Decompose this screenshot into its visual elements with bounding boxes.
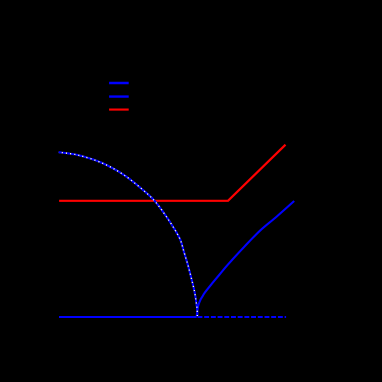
legend entry 2: blue solid-curve sample: [109, 95, 129, 97]
legend entry 3: red-curve sample: [109, 109, 129, 111]
legend entry 1: blue dashed-curve sample: [109, 82, 129, 84]
blue solid curve: rising branch: [197, 201, 295, 316]
blue solid curve: flat bottom segment: [59, 316, 197, 318]
blue dotted horizontal continuation: [198, 316, 287, 318]
red curve: flat then rising: [59, 145, 285, 201]
white underlay of descending dashed curve: [59, 152, 198, 316]
blue dashes of descending curve: [59, 152, 198, 316]
